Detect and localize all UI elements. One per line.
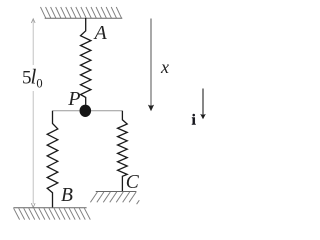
spring C (right spring): [118, 111, 128, 192]
horizontal bar through P: [53, 110, 123, 112]
svg-text:x: x: [160, 57, 169, 77]
current arrow i: [202, 89, 204, 117]
left floor line: [13, 207, 86, 209]
spring A (top spring): [81, 18, 91, 105]
ceiling support hatch: [41, 7, 122, 18]
svg-text:A: A: [93, 22, 108, 44]
svg-text:C: C: [126, 172, 140, 193]
left floor hatch: [14, 208, 91, 219]
x axis arrow: [150, 19, 152, 108]
svg-text:P: P: [67, 88, 80, 110]
dimension arrowheads: [31, 19, 35, 208]
dimension line 5l0: [32, 20, 34, 205]
right floor hatch overflow fleck: [137, 200, 140, 204]
right floor hatch: [90, 192, 136, 202]
spring B (left spring): [47, 111, 58, 208]
svg-text:B: B: [61, 185, 73, 206]
node P (junction mass point): [80, 105, 92, 117]
ceiling line: [45, 17, 123, 19]
right floor line: [96, 191, 137, 193]
svg-text:i: i: [192, 112, 196, 128]
